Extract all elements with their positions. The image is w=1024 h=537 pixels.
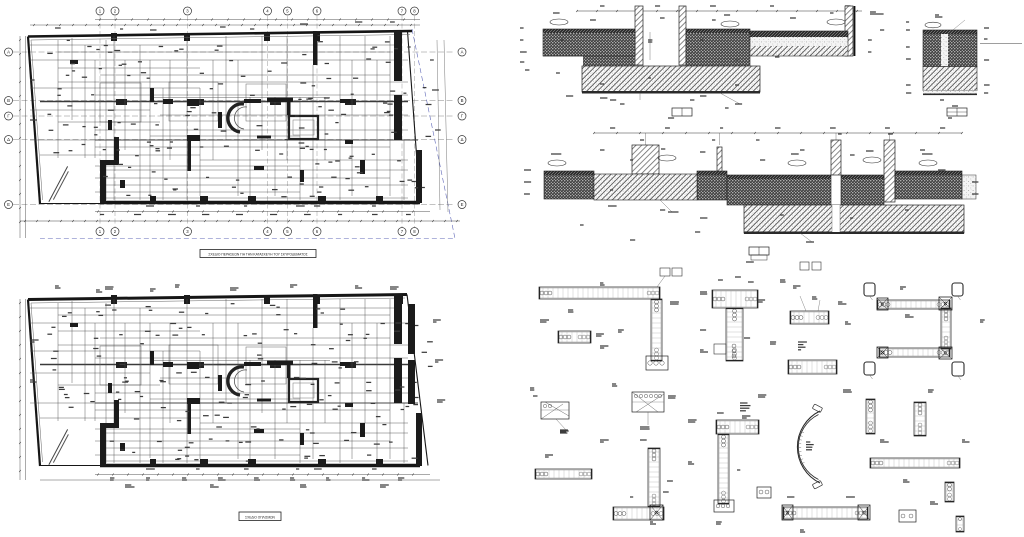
svg-text:E: E [461, 202, 464, 207]
svg-text:Δ: Δ [7, 137, 10, 142]
svg-text:E: E [7, 202, 10, 207]
svg-text:A: A [461, 50, 464, 55]
svg-text:A: A [7, 50, 10, 55]
svg-text:ΣΧΕΔΙΟ ΟΠΛΙΣΜΩΝ: ΣΧΕΔΙΟ ΟΠΛΙΣΜΩΝ [245, 515, 275, 519]
svg-text:B: B [461, 98, 464, 103]
svg-text:ΣΧΕΔΙΟ ΠΕΡΑΣΕΩΝ ΓΙΑ ΤΗΝ ΚΑΤΑΣΚ: ΣΧΕΔΙΟ ΠΕΡΑΣΕΩΝ ΓΙΑ ΤΗΝ ΚΑΤΑΣΚΕΥΗ ΤΟΥ ΣΚ… [208, 252, 307, 256]
svg-text:Δ: Δ [461, 137, 464, 142]
svg-text:B: B [7, 98, 10, 103]
